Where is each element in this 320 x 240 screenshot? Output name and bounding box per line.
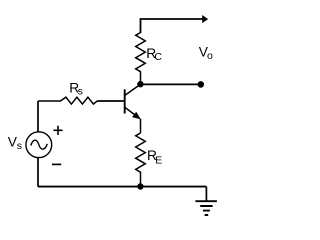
svg-text:E: E xyxy=(155,154,162,166)
wire emitter to RE xyxy=(140,119,142,133)
ground stem xyxy=(205,187,207,202)
transistor Q1 emitter lead xyxy=(125,107,140,118)
node emitter-rail junction dot xyxy=(137,183,143,189)
wire top rail from RC to output arrow xyxy=(141,19,204,33)
svg-text:C: C xyxy=(154,51,162,63)
wire left rail upper (RS to VS plus) xyxy=(37,101,39,132)
source VS circle xyxy=(26,132,52,158)
resistor RE xyxy=(136,133,146,187)
source VS sine wave xyxy=(31,140,48,149)
transistor Q1 base bar xyxy=(124,89,126,113)
label minus sign xyxy=(52,163,61,165)
transistor Q1 collector lead xyxy=(125,84,140,95)
wire left rail lower (VS to ground rail) xyxy=(37,158,39,187)
transistor Q1 emitter arrowhead xyxy=(133,112,140,118)
wire output node to Vo terminal xyxy=(140,83,198,85)
wire base from RS to Q1 xyxy=(97,100,125,102)
resistor RC xyxy=(136,33,146,85)
ground bars xyxy=(195,201,217,215)
svg-text:s: s xyxy=(17,140,22,152)
wire bottom rail xyxy=(38,186,206,188)
label plus sign xyxy=(53,126,62,135)
svg-text:o: o xyxy=(207,50,213,62)
node collector dot xyxy=(137,81,143,87)
arrowhead output arrow xyxy=(203,16,208,23)
resistor RS xyxy=(38,97,97,104)
node Vo terminal dot xyxy=(198,81,205,88)
svg-text:s: s xyxy=(78,85,83,97)
